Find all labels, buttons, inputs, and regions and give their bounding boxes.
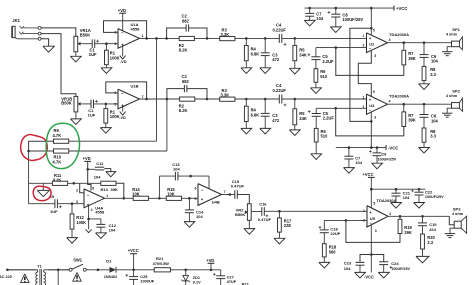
red annotation circle around ground symbol (33, 186, 51, 201)
svg-text:682: 682 (182, 79, 190, 84)
wire U1B output (140, 98, 180, 100)
node U1B input (105, 103, 108, 106)
ground R17 (278, 232, 280, 238)
wire jack sleeve to ground (41, 39, 49, 46)
svg-text:6.8K: 6.8K (251, 112, 260, 117)
svg-text:+: + (369, 97, 372, 102)
svg-text:6: 6 (194, 187, 196, 191)
svg-text:4558: 4558 (95, 210, 105, 215)
svg-text:8.2K: 8.2K (179, 108, 188, 113)
capacitor C2 (167, 28, 187, 38)
svg-text:−: − (369, 221, 372, 226)
capacitor C7B (348, 148, 350, 157)
svg-text:TDA2030A: TDA2030A (389, 32, 409, 37)
svg-text:2: 2 (363, 44, 365, 48)
wire tap channel A to R9 (156, 38, 158, 141)
svg-text:470/0.5W: 470/0.5W (153, 262, 170, 266)
wire branch column (350, 28, 371, 121)
node U1A input (105, 42, 108, 45)
capacitor C18 (323, 220, 325, 230)
capacitor C21 (395, 189, 397, 193)
svg-text:10K: 10K (167, 191, 175, 196)
ground R18 (323, 257, 325, 263)
node R5B (294, 98, 297, 101)
svg-text:1000UF: 1000UF (140, 279, 154, 284)
svg-text:22UF: 22UF (330, 231, 340, 236)
resistor R2 (179, 36, 194, 40)
svg-text:U1B: U1B (131, 83, 139, 88)
svg-text:3: 3 (114, 42, 116, 46)
capacitor C2B (167, 89, 185, 99)
resistor R5 (294, 38, 296, 45)
capacitor C8B (376, 148, 378, 153)
svg-text:+: + (369, 210, 372, 215)
wire U2 output (388, 42, 452, 44)
svg-text:T1: T1 (37, 264, 42, 269)
svg-text:+VCC: +VCC (363, 172, 374, 177)
wire U1B feedback (106, 82, 147, 99)
resistor R7 feedback (336, 48, 404, 76)
capacitor C14 (188, 198, 190, 210)
svg-text:1: 1 (363, 34, 365, 38)
amplifier U3 TDA2030A (367, 94, 388, 114)
ground C23 (359, 265, 361, 272)
ground R20 (422, 249, 424, 256)
svg-text:0.47UF: 0.47UF (231, 184, 245, 189)
svg-text:104: 104 (316, 16, 324, 21)
wire transformer to switch (48, 269, 69, 271)
svg-text:C22: C22 (425, 190, 433, 195)
svg-text:4: 4 (389, 38, 391, 42)
svg-text:+: + (201, 197, 204, 202)
resistor R10 (69, 150, 167, 152)
capacitor C6B (423, 104, 425, 114)
svg-text:104: 104 (355, 160, 362, 165)
svg-text:-VD: -VD (120, 59, 127, 64)
svg-text:1UF: 1UF (88, 112, 96, 117)
resistor R17 (278, 211, 280, 218)
capacitor C11 (88, 168, 95, 170)
svg-text:472: 472 (272, 57, 280, 62)
svg-text:104: 104 (344, 266, 351, 271)
svg-text:104: 104 (431, 58, 439, 63)
wire R21 to +VD (170, 269, 220, 271)
resistor R5B (294, 99, 296, 109)
resistor R21 (154, 268, 170, 272)
ground C21 (395, 196, 397, 203)
ground VR2 (248, 220, 250, 228)
svg-text:104: 104 (173, 167, 180, 172)
svg-text:104: 104 (403, 195, 410, 200)
svg-text:1: 1 (142, 34, 144, 38)
ground R4B (245, 122, 247, 129)
resistor R12 (71, 204, 73, 214)
wire U3 output (388, 103, 452, 105)
node AC input (6, 269, 9, 272)
svg-text:100K: 100K (110, 114, 120, 119)
ground C12 (100, 227, 102, 233)
svg-text:+VCC: +VCC (396, 6, 407, 11)
op-amp U1A (118, 29, 140, 49)
wire U3 pin2 (316, 107, 366, 109)
resistor R1B (105, 104, 107, 109)
wire mixer to C9 (28, 151, 30, 204)
svg-text:2: 2 (76, 189, 78, 193)
resistor R14 (133, 196, 148, 200)
svg-text:C16: C16 (259, 202, 267, 207)
wire jack ring to VR1B (41, 34, 76, 97)
ground R8B (423, 142, 425, 147)
svg-text:104: 104 (196, 214, 203, 219)
svg-text:8.2K: 8.2K (53, 177, 61, 182)
svg-text:3.3K: 3.3K (221, 32, 230, 37)
svg-text:1UF: 1UF (50, 209, 58, 214)
speaker SP1 (452, 41, 460, 47)
speaker SP2 (452, 103, 460, 109)
wire U5 pin3 to -VCC (370, 225, 372, 273)
svg-text:10K: 10K (132, 191, 140, 196)
ground C22 (418, 195, 420, 203)
svg-text:39K: 39K (404, 230, 412, 235)
ground C11 (104, 169, 111, 172)
svg-text:3: 3 (76, 200, 78, 204)
switch SW1 (69, 268, 72, 271)
capacitor C7 (309, 8, 311, 13)
svg-text:510: 510 (320, 74, 328, 79)
svg-text:8: 8 (92, 186, 94, 190)
svg-text:AC 220: AC 220 (0, 275, 12, 279)
ground VR1A (75, 52, 77, 57)
svg-text:4 ohm: 4 ohm (452, 212, 464, 216)
wire jack tip to VR1A (41, 28, 76, 36)
capacitor C6 (423, 43, 425, 55)
amplifier U5 TDA2030A (367, 206, 388, 227)
capacitor C5B (315, 108, 317, 113)
svg-text:100UF/25V: 100UF/25V (378, 158, 397, 162)
svg-text:4.7K: 4.7K (53, 133, 62, 138)
green annotation circle around R9 R10 (46, 123, 79, 168)
svg-text:4: 4 (389, 212, 391, 216)
svg-text:3: 3 (374, 116, 376, 120)
svg-text:B50K: B50K (61, 100, 72, 105)
svg-text:22E: 22E (284, 223, 292, 228)
capacitor C25 (133, 270, 135, 277)
svg-text:C11: C11 (96, 161, 104, 166)
svg-text:TDA2030A: TDA2030A (389, 94, 409, 99)
power -VD U1B (122, 107, 124, 112)
resistor R8B (423, 117, 425, 128)
svg-text:R21: R21 (156, 256, 164, 261)
wire switch to diode (86, 269, 109, 271)
capacitor C1B (83, 103, 91, 105)
svg-text:C8: C8 (382, 152, 387, 156)
svg-text:1: 1 (106, 194, 108, 198)
svg-text:3.3: 3.3 (430, 134, 436, 139)
capacitor C27 (220, 270, 222, 276)
wire U4B output (222, 194, 235, 196)
capacitor C24 (371, 255, 383, 262)
svg-text:+VD: +VD (118, 8, 126, 13)
ground R11 tap (42, 183, 44, 190)
svg-text:-VCC: -VCC (388, 146, 398, 151)
svg-text:B50K: B50K (80, 32, 91, 37)
op-amp U4B (198, 184, 222, 206)
svg-text:9.1V: 9.1V (193, 281, 201, 285)
capacitor C23 (360, 255, 371, 263)
svg-text:2.2UF: 2.2UF (322, 59, 334, 64)
resistor R19 feedback (346, 220, 400, 242)
svg-text:3.3: 3.3 (427, 240, 433, 245)
svg-text:+VD: +VD (83, 156, 91, 161)
svg-text:−: − (87, 192, 90, 197)
capacitor C16 (251, 211, 262, 213)
capacitor C13 feedback (158, 176, 160, 198)
svg-text:−: − (369, 108, 372, 113)
ground R12 (71, 229, 73, 238)
capacitor C8 (335, 8, 337, 14)
ground C7B (348, 159, 350, 168)
svg-text:4 ohm: 4 ohm (446, 33, 458, 37)
svg-text:5: 5 (373, 90, 375, 94)
svg-text:−: − (121, 31, 124, 36)
svg-text:100UF/25V: 100UF/25V (342, 17, 363, 22)
resistor R6B (315, 116, 317, 128)
wire U1A output (140, 37, 180, 39)
ground jack (43, 46, 54, 52)
diode D1 1N5402 (110, 267, 117, 273)
power -VD U4A pin4 (88, 206, 90, 219)
svg-text:100UF/25V: 100UF/25V (391, 267, 410, 271)
svg-text:5: 5 (373, 29, 375, 33)
svg-text:0.22UF: 0.22UF (273, 88, 287, 93)
svg-text:4.7K: 4.7K (53, 159, 62, 164)
svg-text:39K: 39K (111, 187, 118, 192)
wire U1A feedback (104, 21, 147, 39)
svg-text:472: 472 (272, 118, 280, 123)
svg-text:C24: C24 (391, 261, 399, 266)
svg-text:4558: 4558 (131, 26, 141, 31)
svg-text:5: 5 (194, 197, 196, 201)
wire U2 pin3 / U3 pin5 supply (358, 50, 371, 96)
wire U3 pin3 to -VCC (370, 112, 372, 148)
ground C3B (264, 116, 266, 128)
capacitor C22 (418, 189, 420, 192)
svg-text:100UF/25V: 100UF/25V (425, 195, 444, 199)
svg-text:0.22UF: 0.22UF (273, 27, 287, 32)
power rail +VCC (305, 7, 395, 9)
polarity mark 1 (21, 274, 29, 283)
svg-text:224: 224 (429, 227, 436, 232)
resistor R7B feedback (336, 108, 404, 136)
resistor R9 (69, 140, 157, 142)
svg-text:1: 1 (363, 209, 365, 213)
wire U4A pin2 (80, 183, 84, 193)
ground R1 (105, 65, 107, 68)
resistor R2B (180, 97, 195, 101)
svg-text:560: 560 (329, 249, 337, 254)
svg-text:B50K: B50K (235, 212, 245, 217)
wire diode to C25 (116, 269, 154, 271)
svg-text:3: 3 (375, 229, 377, 233)
resistor R4 (245, 38, 247, 45)
svg-text:1N5402: 1N5402 (104, 275, 117, 279)
resistor R6 (315, 60, 317, 69)
resistor R15 (166, 196, 181, 200)
capacitor C4 (278, 34, 280, 43)
capacitor C19 (422, 216, 424, 223)
svg-text:D1: D1 (106, 259, 112, 264)
power rail +VCC U5 (371, 188, 425, 190)
svg-text:104: 104 (94, 175, 101, 180)
ground R5B (294, 125, 296, 130)
svg-text:3: 3 (374, 54, 376, 58)
speaker SP3 (449, 216, 454, 224)
ground R8 (423, 81, 425, 84)
svg-text:U4B: U4B (212, 200, 220, 205)
potentiometer VR1B (74, 96, 78, 112)
svg-text:34K: 34K (299, 53, 307, 58)
capacitor C15 (234, 190, 236, 199)
svg-text:0.47UF: 0.47UF (258, 217, 272, 222)
ground C7 (309, 16, 311, 20)
node R5 (294, 37, 297, 40)
svg-text:104: 104 (431, 118, 439, 123)
svg-text:7: 7 (224, 190, 226, 194)
svg-text:SW1: SW1 (73, 258, 83, 263)
resistor R4B (245, 99, 247, 106)
resistor R11 (29, 182, 53, 184)
node mixer junction (27, 150, 30, 153)
resistor R13 (101, 181, 116, 185)
svg-text:SP2: SP2 (452, 89, 460, 94)
svg-text:+: + (369, 36, 372, 41)
polarity mark 2 (73, 272, 81, 281)
ground C24 (383, 265, 385, 273)
ground R6B (315, 142, 317, 154)
svg-text:39K: 39K (408, 56, 416, 61)
potentiometer VR1A (74, 36, 78, 52)
ground R4 (245, 61, 247, 68)
capacitor C1 (83, 43, 93, 45)
svg-text:-VD: -VD (119, 116, 126, 120)
svg-text:5: 5 (373, 202, 375, 206)
svg-text:100K: 100K (110, 55, 120, 60)
svg-text:+VCC: +VCC (128, 248, 139, 253)
svg-text:-VCC: -VCC (364, 274, 374, 279)
svg-text:JK1: JK1 (12, 18, 20, 23)
capacitor C5 (315, 48, 317, 57)
svg-text:5: 5 (114, 102, 116, 106)
svg-text:4 ohm: 4 ohm (446, 94, 458, 98)
svg-text:6.8K: 6.8K (251, 52, 260, 57)
resistor R1 (105, 44, 107, 51)
svg-text:−: − (201, 187, 204, 192)
resistor R8 (423, 57, 425, 66)
wire C16 to U5 (264, 210, 367, 212)
svg-text:3.3K: 3.3K (221, 92, 230, 97)
op-amp U1B (118, 89, 140, 109)
ground VR1B (75, 112, 77, 119)
svg-text:SP3: SP3 (453, 206, 461, 211)
svg-text:SP1: SP1 (452, 27, 460, 32)
svg-text:510: 510 (321, 134, 329, 139)
svg-text:2.2UF: 2.2UF (323, 116, 335, 121)
wire U2 pin2 (316, 47, 367, 49)
svg-text:104: 104 (109, 228, 116, 233)
red annotation circle around mixer node (21, 135, 48, 161)
capacitor C12 (89, 218, 101, 220)
resistor R3 (220, 37, 235, 41)
svg-text:ZD1: ZD1 (193, 276, 200, 280)
svg-text:1UF: 1UF (89, 52, 97, 57)
zener ZD1 (185, 270, 187, 276)
input jack JK1 (12, 26, 15, 37)
power rail -VCC U3 (336, 147, 386, 149)
resistor R18 (323, 233, 325, 244)
svg-text:−: − (121, 91, 124, 96)
amplifier U2 TDA2030A (367, 33, 388, 53)
svg-text:+VD: +VD (206, 258, 214, 263)
ground R1B (105, 123, 107, 128)
op-amp U4A (84, 189, 105, 208)
svg-text:47UF: 47UF (227, 279, 237, 284)
svg-text:100K: 100K (76, 220, 86, 225)
svg-text:39K: 39K (408, 118, 416, 123)
capacitor C9 (29, 203, 55, 205)
ground R5 (294, 61, 296, 69)
ground C14 (188, 213, 190, 222)
svg-text:34K: 34K (299, 116, 307, 121)
wire U4A output (105, 197, 134, 199)
svg-text:3.3: 3.3 (430, 72, 436, 77)
svg-text:4: 4 (389, 100, 391, 104)
resistor R3B (220, 97, 235, 101)
svg-text:682: 682 (182, 19, 190, 24)
ground C8B (376, 156, 378, 164)
svg-text:8.2K: 8.2K (179, 48, 188, 53)
ground C3 (264, 56, 266, 68)
svg-text:R13: R13 (101, 187, 109, 192)
potentiometer VR2 (247, 204, 251, 221)
wire U5 output (388, 215, 449, 217)
wire U2 pin5 supply (370, 8, 372, 35)
svg-text:7: 7 (142, 95, 144, 99)
capacitor C4B (278, 95, 280, 104)
ground R6 (315, 82, 317, 88)
capacitor C3 (264, 38, 266, 52)
wire U5 pin2 (324, 219, 367, 221)
capacitor C3B (264, 99, 266, 113)
ground C8 (335, 17, 337, 27)
power -VD U1A (122, 46, 124, 56)
svg-text:4: 4 (91, 208, 93, 212)
wire AC to transformer (7, 269, 36, 271)
wire tap channel B to R10 (166, 99, 168, 151)
resistor R20 (422, 226, 424, 234)
